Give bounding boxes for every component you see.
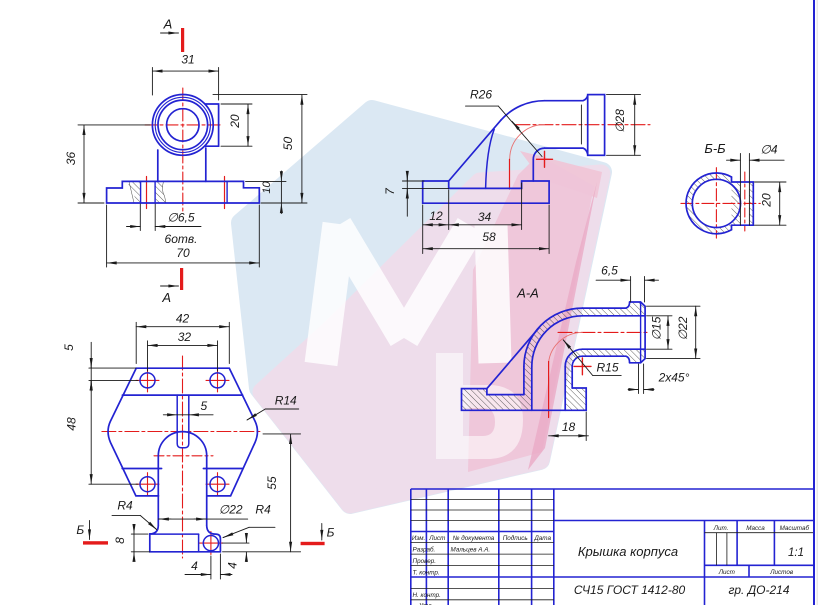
svg-text:10: 10 [261,181,273,194]
dim ø22 [647,306,701,358]
svg-text:8: 8 [113,537,127,544]
svg-text:6отв.: 6отв. [165,232,198,246]
svg-text:∅28: ∅28 [613,109,627,133]
centerline horizontal red [558,331,650,333]
svg-text:5: 5 [62,344,76,351]
svg-text:А: А [163,17,173,32]
centerline vertical red [548,362,550,418]
dim 20 [221,104,252,146]
outer bottom fillet arc [572,356,582,366]
dim ø15 [647,316,673,349]
boss tab outline [732,177,754,230]
svg-text:Лист: Лист [428,535,445,542]
svg-text:СЧ15 ГОСТ 1412-80: СЧ15 ГОСТ 1412-80 [574,583,686,597]
bore top line [582,315,645,317]
bore bottom line [582,348,645,350]
bolt hole circle 2 [210,373,225,388]
svg-text:Б: Б [76,523,84,537]
svg-text:R4: R4 [255,503,271,517]
hole crosshair 2 [206,369,229,392]
hatch top wall band [582,308,629,316]
dim 34 line [449,224,522,226]
bend neck vertical [532,159,534,181]
dim ø22 [158,518,247,520]
dim 8 [131,525,150,561]
pipe bottom line [545,148,588,154]
dim R15 [563,340,621,376]
svg-text:48: 48 [65,417,79,431]
center line vertical [182,88,184,212]
hatch foot [565,388,586,410]
boss circle ring2 [155,97,210,152]
tab hatch left part [732,182,741,225]
foot inner vertical [198,534,200,552]
main border lines blue [411,489,814,605]
dim 4 horizontal [185,554,232,579]
dim ø28 [607,95,641,156]
section plane A bottom: red bar [180,268,183,290]
outer wall right vertical [571,366,573,388]
hole edge left [140,181,142,203]
collar rectangle [588,95,605,156]
svg-text:Подпись: Подпись [503,534,528,542]
hatch bottom wall band [565,349,645,388]
pipe centerline bend arc red [510,125,545,160]
inner bore left vertical [531,366,533,410]
svg-text:12: 12 [429,209,443,223]
neck right [205,148,207,181]
svg-text:Т. контр.: Т. контр. [413,570,440,577]
dim 31 [152,68,218,101]
foot top edge [150,533,199,535]
gusset diagonal [449,120,501,181]
svg-text:Разраб.: Разраб. [413,546,436,554]
collar chamfer edge [640,302,642,363]
svg-text:20: 20 [760,193,774,208]
dim 50 [213,95,307,203]
stem right vertical [206,456,208,525]
hole crosshair 4 [206,473,229,496]
svg-text:Лит.: Лит. [713,525,729,532]
hole crosshair 3 [136,473,159,496]
right hole edge line [226,181,228,203]
base plate outline [423,181,549,203]
pipe centerline horizontal red [516,124,650,126]
foot outline [150,525,221,552]
flange outline [107,181,260,203]
svg-text:Масштаб: Масштаб [780,524,810,532]
section mark Б right [301,542,325,545]
svg-text:Б: Б [327,526,335,540]
svg-text:Б-Б: Б-Б [704,141,726,156]
svg-text:2х45°: 2х45° [658,371,690,385]
svg-text:Н. контр.: Н. контр. [413,592,441,599]
lower edge line right [203,468,243,470]
svg-text:R4: R4 [117,499,133,513]
svg-text:31: 31 [181,53,194,67]
centerline bend arc red [548,332,582,366]
thin row lines black [411,500,814,600]
boss circle ring3 [158,100,208,150]
hatch local cut left of hole [129,181,141,203]
bore circle inner [167,109,199,141]
ring hatch [686,173,747,234]
hole center line red [744,172,746,231]
svg-text:R15: R15 [596,361,618,375]
svg-text:А: А [161,290,171,305]
boss circle outer [152,95,213,156]
stem left vertical [157,456,159,525]
hole edge lines [739,154,741,226]
svg-text:58: 58 [482,230,496,244]
section arrow A top [161,32,179,34]
dim 36 [78,125,150,203]
svg-text:50: 50 [281,137,295,151]
svg-text:№ документа: № документа [453,534,495,542]
dim 18 [549,412,589,441]
flange hexagon outline [108,368,257,496]
pink ribbon band along top-right edge [520,151,602,198]
center line vertical red [182,356,184,558]
bolt hole crosshair [200,532,223,555]
hexagon light blue base [241,110,602,504]
svg-text:Масса: Масса [746,525,765,532]
white cover for tab area [731,177,755,229]
svg-text:6,5: 6,5 [601,264,618,278]
drawing frame right border [813,0,815,605]
tab hatch right part [749,182,753,225]
svg-text:Мальцев А.А.: Мальцев А.А. [451,547,491,554]
hole center line left [146,177,148,209]
bend center cross red [574,358,591,375]
hole edge right [154,181,156,203]
outer bend arc [501,101,544,120]
pipe-gusset intersection curve [486,129,495,188]
hatch collar top [630,302,646,316]
dim 12 line [423,224,449,226]
neck left [157,150,159,181]
svg-text:55: 55 [265,476,279,490]
dim 20 [755,182,787,225]
pipe outer top line [582,302,629,308]
outer wall vertical left [523,366,525,394]
dim R26 [466,106,543,156]
dim 5 left [89,342,138,391]
base outline [462,388,587,410]
bolt hole in foot [203,536,218,551]
inner bore top arc [532,316,583,367]
collar outline [630,302,646,363]
svg-text:∅6,5: ∅6,5 [167,211,194,225]
dim R4 right [223,527,275,537]
letter b (soft sign) white [436,353,523,459]
dim 48 [89,380,138,484]
svg-text:5: 5 [200,399,207,413]
svg-text:Изм.: Изм. [412,535,425,542]
pale pink lower-right part [262,174,601,504]
dim R14 [247,409,299,420]
dim 10 [246,171,287,214]
strong pink wedge [468,155,594,472]
inner bend fillet [533,148,544,159]
svg-text:70: 70 [176,246,190,260]
center line horizontal red [102,431,262,433]
section plane A top: red bar [181,28,184,52]
center line horizontal red [681,202,760,204]
upper edge line [122,394,242,396]
dim 6,5 [596,277,658,303]
slot [177,395,189,448]
bolt hole circle 1 [140,373,155,388]
svg-text:Листов: Листов [769,569,794,576]
pipe centerline vertical red [509,159,511,189]
outer circle arc [686,173,731,234]
dim 32 [148,341,218,371]
dim 5 slot [163,414,213,416]
svg-text:4: 4 [191,559,198,573]
svg-text:Лист: Лист [718,569,735,576]
dim 7 [402,172,448,217]
pipe outer bottom line [582,356,629,363]
dim 42 [136,322,229,363]
dims 12 34 58 extension lines [423,183,549,254]
hatch left wall band [524,308,583,395]
hole center line right [224,177,226,209]
svg-text:гр. ДО-214: гр. ДО-214 [728,583,789,597]
svg-text:36: 36 [64,152,78,166]
svg-text:∅15: ∅15 [650,316,664,340]
dim 58 line [423,248,549,250]
svg-text:R14: R14 [275,394,297,408]
bolt hole circle 3 [140,477,155,492]
center line horizontal through circle [145,124,221,126]
letter M white [321,224,495,364]
svg-text:20: 20 [228,114,242,129]
red edge streak [528,182,597,470]
dim ø6.5 [127,204,202,231]
stem center line horizontal red [154,455,213,457]
bolt hole circle 4 [210,477,225,492]
inner bore bottom arc [565,349,582,366]
svg-text:Провер.: Провер. [413,558,436,565]
section mark Б left [83,541,108,544]
dim ø4 [727,159,785,161]
svg-text:R26: R26 [470,88,492,102]
svg-text:А-А: А-А [516,286,539,301]
outer bend arc [524,308,583,366]
inner circle [692,179,740,227]
svg-text:42: 42 [176,312,190,326]
svg-text:34: 34 [478,210,492,224]
svg-text:∅4: ∅4 [760,143,777,157]
edge line in pipe [580,105,582,144]
dim R4 left [112,515,157,529]
svg-text:4: 4 [226,562,240,569]
svg-text:Дата: Дата [533,535,551,542]
gusset diagonal [487,327,539,388]
svg-text:∅22: ∅22 [676,316,690,340]
svg-text:∅22: ∅22 [219,503,243,517]
stem circle top half [158,432,206,456]
inner bore right vertical [564,366,566,410]
dim 4 vertical [223,533,250,561]
center line vertical red [715,168,717,238]
dim 55 [223,434,301,552]
hatch base [462,389,532,411]
svg-text:32: 32 [178,330,192,344]
svg-text:1:1: 1:1 [788,547,804,559]
lower edge line left [122,468,161,470]
dim 2x45 [628,364,654,394]
section arrow A bottom [161,285,179,287]
hole crosshair 1 [136,369,159,392]
svg-text:Крышка корпуса: Крышка корпуса [578,544,678,559]
side tab behind circle [205,104,219,146]
bend center cross red [537,151,553,167]
dim 70 [107,205,260,267]
pipe top line [545,96,588,101]
hatch local cut right of hole [155,181,166,203]
svg-text:18: 18 [562,420,576,434]
